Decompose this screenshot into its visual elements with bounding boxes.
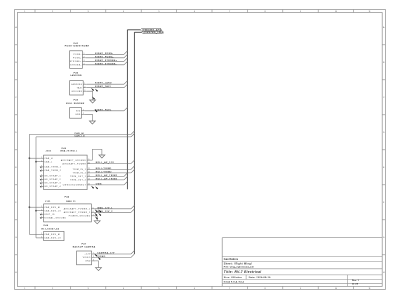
svg-text:7: 7 bbox=[229, 288, 230, 290]
svg-text:7: 7 bbox=[93, 215, 94, 217]
wire CAMERA_12V bbox=[95, 252, 131, 255]
svg-text:3: 3 bbox=[93, 260, 94, 262]
bus entry ROLL_AP_TRIM1 bbox=[124, 173, 127, 176]
GSA pin 11 TRIM_IN_1 bbox=[73, 168, 91, 171]
svg-text:11: 11 bbox=[369, 11, 371, 13]
svg-text:Title: RV-7 Electrical: Title: RV-7 Electrical bbox=[224, 270, 262, 274]
GMU pin 6 AIRCRAFT_POWER_2 bbox=[64, 211, 95, 214]
connector P43 body bbox=[70, 108, 82, 119]
P40 pin 1 LANDING bbox=[71, 83, 87, 86]
svg-text:10: 10 bbox=[335, 288, 337, 290]
svg-text:2: 2 bbox=[41, 237, 42, 239]
svg-text:SIG: SIG bbox=[76, 111, 81, 113]
wire CAN_HI vertical bbox=[28, 134, 30, 234]
svg-text:11: 11 bbox=[369, 288, 371, 290]
wire GSA aircraft ground run bbox=[91, 149, 102, 160]
svg-text:RIGHT_STROBE+: RIGHT_STROBE+ bbox=[95, 60, 118, 62]
ERC marker GMU power1 a bbox=[95, 209, 98, 212]
svg-text:P47: P47 bbox=[82, 244, 87, 246]
svg-text:1: 1 bbox=[24, 11, 25, 13]
GSA pin 14 TRIM_OUT_2 bbox=[70, 179, 90, 182]
svg-text:1: 1 bbox=[93, 253, 94, 255]
bus entry GMU_12V_1 bbox=[131, 205, 134, 208]
ERC marker GMU power1 b bbox=[98, 210, 101, 213]
P40 pin 3 GROUND bbox=[72, 90, 87, 93]
svg-text:CAN_BUS_HI: CAN_BUS_HI bbox=[44, 233, 60, 236]
wire ROLL_AP_TRIM1 bbox=[91, 174, 124, 177]
svg-text:8: 8 bbox=[265, 11, 266, 13]
svg-text:{PWR/WG_FWD}: {PWR/WG_FWD} bbox=[144, 32, 165, 34]
svg-text:P46: P46 bbox=[44, 225, 49, 227]
svg-text:CAN_BUS_HI: CAN_BUS_HI bbox=[44, 206, 60, 209]
svg-text:J111: J111 bbox=[45, 201, 51, 203]
junction CAN_HI GMU bbox=[29, 206, 31, 208]
wire CAN_LO vertical bbox=[35, 137, 37, 238]
bus entry CWS bbox=[124, 182, 127, 185]
svg-text:SIGNAL_GROUND: SIGNAL_GROUND bbox=[44, 216, 66, 219]
wire CWS bbox=[91, 183, 124, 185]
wire RIGHT_STROBE+ bbox=[86, 60, 124, 62]
wire CAN_LO to GMU bbox=[36, 210, 40, 212]
svg-text:14: 14 bbox=[88, 179, 90, 181]
wire RIGHT_TAXI bbox=[87, 85, 124, 88]
svg-text:GMU_12V_1: GMU_12V_1 bbox=[98, 207, 114, 209]
svg-text:CAN_LO: CAN_LO bbox=[75, 135, 86, 138]
svg-text:6: 6 bbox=[93, 211, 94, 213]
svg-text:8: 8 bbox=[41, 185, 42, 187]
junction CAN_LO GMU bbox=[35, 210, 37, 212]
svg-text:3: 3 bbox=[41, 166, 42, 168]
ERC marker at GSA CAN_TERM_1 bbox=[40, 166, 42, 168]
P43 pin 1 SIG bbox=[76, 109, 85, 112]
svg-text:6: 6 bbox=[41, 178, 42, 180]
svg-text:GS_STRAP_1: GS_STRAP_1 bbox=[44, 175, 61, 178]
svg-text:ROLL/TRIM2: ROLL/TRIM2 bbox=[96, 171, 112, 173]
svg-text:2: 2 bbox=[41, 160, 42, 162]
svg-text:TRIM_IN_1: TRIM_IN_1 bbox=[73, 169, 87, 171]
bus entry ROLL_AP_TRIM2 bbox=[124, 177, 127, 180]
svg-text:P44: P44 bbox=[65, 197, 70, 199]
svg-text:GND: GND bbox=[85, 261, 91, 263]
bus PWR/WG_AFT top segment bbox=[127, 29, 140, 31]
bus PWR/WG_FWD vertical bbox=[133, 32, 135, 254]
svg-text:1: 1 bbox=[41, 206, 42, 208]
svg-text:1: 1 bbox=[41, 157, 42, 159]
svg-text:GMU 11: GMU 11 bbox=[66, 201, 76, 203]
GMU pin 5 AIRCRAFT_POWER_1 bbox=[64, 208, 95, 211]
GSA pin 3 CAN_TERM_1 bbox=[40, 166, 61, 169]
svg-text:4: 4 bbox=[41, 169, 42, 171]
svg-text:A: A bbox=[383, 26, 385, 29]
junction CAN_LO GSA bbox=[35, 161, 37, 163]
ground camera bbox=[96, 268, 102, 271]
GSA pin 10 AIRCRAFT_POWER bbox=[63, 162, 91, 165]
svg-text:7: 7 bbox=[229, 11, 230, 13]
GSA pin 2 CAN_L bbox=[40, 160, 53, 163]
bus entry ROLL/TRIM1 bbox=[131, 166, 134, 169]
wire ROLL/TRIM2 bbox=[91, 171, 131, 173]
wire VIDEO bbox=[95, 256, 131, 258]
bus label PWR/WG_AFT bbox=[140, 28, 162, 31]
svg-text:1: 1 bbox=[85, 83, 86, 85]
svg-text:12: 12 bbox=[88, 172, 90, 174]
svg-text:4: 4 bbox=[123, 11, 124, 13]
svg-text:Id: 2/9: Id: 2/9 bbox=[352, 283, 359, 285]
svg-text:GL1-62007-04: GL1-62007-04 bbox=[41, 229, 59, 231]
svg-text:CAN_BUS_LO: CAN_BUS_LO bbox=[44, 209, 61, 212]
P46 pin 1 CAN_BUS_HI bbox=[40, 233, 61, 236]
svg-text:ROLL_AP_TRIM2: ROLL_AP_TRIM2 bbox=[96, 177, 118, 180]
wire CAN_HI to P46 bbox=[29, 233, 40, 235]
svg-text:CAN_TERM_2: CAN_TERM_2 bbox=[44, 169, 61, 172]
wire ROLL/TRIM1 bbox=[91, 168, 131, 170]
svg-text:9: 9 bbox=[89, 159, 90, 161]
svg-text:F: F bbox=[16, 202, 17, 204]
svg-text:2: 2 bbox=[52, 288, 53, 290]
bus entry RIGHT_LAND bbox=[124, 81, 127, 84]
ground P40 bbox=[90, 100, 96, 103]
svg-text:1: 1 bbox=[24, 288, 25, 290]
svg-text:POWER_GROUND: POWER_GROUND bbox=[69, 216, 91, 218]
wire CAN_LO horizontal bbox=[36, 135, 131, 138]
svg-text:RIGHT_STROBE-: RIGHT_STROBE- bbox=[95, 63, 117, 65]
svg-text:4: 4 bbox=[84, 63, 85, 65]
svg-text:5: 5 bbox=[93, 208, 94, 210]
svg-text:CWS: CWS bbox=[96, 183, 102, 185]
GSA pin 8 GS_STRAP_4 bbox=[40, 185, 61, 188]
wire ROLL_AP_TRIM2 bbox=[91, 177, 124, 180]
P41 pin 1 POSN- bbox=[73, 53, 85, 56]
GSA pin 13 TRIM_OUT_1 bbox=[70, 175, 90, 178]
connector P40 body bbox=[70, 81, 84, 95]
svg-text:P43: P43 bbox=[74, 99, 79, 101]
svg-text:STROBE-: STROBE- bbox=[70, 65, 82, 67]
svg-text:CAN_H: CAN_H bbox=[44, 157, 53, 160]
ERC marker GMU ground bbox=[95, 216, 98, 219]
GMU pin 2 CAN_BUS_LO bbox=[40, 209, 61, 212]
wire GMU_12V_1 bbox=[95, 207, 131, 209]
svg-text:GROUND: GROUND bbox=[72, 91, 83, 93]
P41 pin 4 STROBE- bbox=[70, 63, 86, 66]
svg-text:4: 4 bbox=[123, 288, 124, 290]
svg-text:5: 5 bbox=[158, 288, 159, 290]
svg-text:POSN+: POSN+ bbox=[73, 58, 82, 60]
ground P43 bbox=[89, 121, 95, 124]
svg-text:CAMERA_12V: CAMERA_12V bbox=[97, 252, 115, 255]
svg-text:G: G bbox=[383, 237, 385, 239]
ERC marker at GSA GS_STRAP_1 bbox=[40, 175, 42, 177]
svg-text:F: F bbox=[383, 202, 384, 204]
svg-text:2: 2 bbox=[52, 11, 53, 13]
connector P46 body bbox=[44, 231, 64, 240]
svg-text:15: 15 bbox=[88, 184, 90, 186]
svg-text:10: 10 bbox=[88, 162, 90, 164]
svg-text:Ivan Dubrov: Ivan Dubrov bbox=[224, 258, 239, 261]
svg-text:D: D bbox=[383, 132, 385, 134]
svg-text:1: 1 bbox=[84, 53, 85, 55]
bus entry RIGHT_POSN+ bbox=[124, 54, 127, 57]
svg-text:B: B bbox=[383, 62, 384, 64]
GSA pin 12 TRIM_IN_2 bbox=[73, 172, 91, 175]
svg-text:RIGHT_POSN+: RIGHT_POSN+ bbox=[95, 56, 114, 58]
GSA pin 15 CWS/DISCONNECT bbox=[63, 184, 91, 187]
title block outline bbox=[222, 238, 382, 287]
P43 pin 2 GND bbox=[75, 113, 85, 116]
svg-text:13: 13 bbox=[88, 175, 90, 177]
ERC marker at GMU UNIT_ID bbox=[40, 214, 42, 216]
svg-text:RIGHT_FUEL: RIGHT_FUEL bbox=[95, 109, 112, 111]
bus entry RIGHT_FUEL bbox=[124, 107, 127, 110]
ERC marker at GMU SIGNAL_GROUND bbox=[40, 217, 42, 219]
wire camera ground run bbox=[95, 261, 98, 268]
svg-text:CAN_BUS_LO: CAN_BUS_LO bbox=[44, 237, 61, 240]
wire GMU power ground run bbox=[95, 216, 97, 221]
svg-text:7: 7 bbox=[41, 182, 42, 184]
GSA pin 5 GS_STRAP_1 bbox=[40, 175, 61, 178]
svg-text:RIGHT_LAND: RIGHT_LAND bbox=[95, 82, 112, 85]
svg-text:2: 2 bbox=[83, 113, 84, 115]
svg-text:6: 6 bbox=[194, 288, 195, 290]
junction CAN_HI GSA bbox=[29, 157, 31, 159]
camera pin 2 VIDEO bbox=[83, 256, 95, 259]
wire ROLL_AP_12V bbox=[91, 161, 131, 164]
P40 pin 2 TAXI bbox=[77, 86, 87, 89]
GSA pin 6 GS_STRAP_2 bbox=[40, 178, 61, 181]
ERC marker camera 12V bbox=[94, 254, 97, 257]
svg-text:ROLL_AP_TRIM1: ROLL_AP_TRIM1 bbox=[96, 174, 118, 177]
svg-text:AIRCRAFT_GROUND: AIRCRAFT_GROUND bbox=[61, 159, 87, 162]
svg-text:Rev: 1: Rev: 1 bbox=[352, 280, 360, 282]
camera pin 1 +12V bbox=[85, 253, 96, 256]
svg-text:RIGHT_POSN-: RIGHT_POSN- bbox=[95, 53, 113, 55]
svg-text:3: 3 bbox=[41, 213, 42, 215]
svg-text:FUEL SENDER: FUEL SENDER bbox=[66, 103, 85, 105]
svg-text:ROLL_AP_12V: ROLL_AP_12V bbox=[96, 161, 115, 164]
svg-text:Date: 2025-08-15: Date: 2025-08-15 bbox=[249, 276, 271, 279]
svg-text:3: 3 bbox=[88, 288, 89, 290]
ERC marker GMU power2 a bbox=[94, 213, 97, 216]
ERC marker at GSA CAN_TERM_2 bbox=[40, 170, 42, 172]
svg-text:BACKUP CAMERA: BACKUP CAMERA bbox=[73, 246, 96, 249]
svg-text:AIRCRAFT_POWER_1: AIRCRAFT_POWER_1 bbox=[64, 208, 91, 211]
svg-text:ROLL/TRIM1: ROLL/TRIM1 bbox=[96, 168, 112, 170]
svg-text:CAN_TERM_1: CAN_TERM_1 bbox=[44, 166, 61, 169]
wire RIGHT_POSN- bbox=[86, 53, 124, 55]
bus entry RIGHT_STROBE- bbox=[124, 61, 127, 64]
svg-text:+12V: +12V bbox=[85, 254, 92, 256]
svg-text:C: C bbox=[383, 97, 385, 99]
svg-text:GS_STRAP_3: GS_STRAP_3 bbox=[44, 182, 61, 185]
wire CAN_LO to P46 bbox=[36, 237, 40, 239]
svg-text:H: H bbox=[383, 272, 385, 274]
bus entry CAN_HI bbox=[131, 131, 134, 134]
svg-text:STROBE+: STROBE+ bbox=[70, 61, 82, 63]
bus entry CAMERA_12V bbox=[131, 251, 134, 254]
bus entry RIGHT_POSN- bbox=[124, 51, 127, 54]
wire CAN_HI to GSA CAN_H bbox=[29, 157, 40, 159]
ERC marker at GSA GS_STRAP_2 bbox=[40, 179, 42, 181]
svg-text:1: 1 bbox=[83, 109, 84, 111]
wire RIGHT_STROBE- bbox=[86, 63, 124, 65]
ground GSA bbox=[99, 155, 105, 158]
svg-text:4: 4 bbox=[41, 216, 42, 218]
svg-text:File: wing_right.kicad_sch: File: wing_right.kicad_sch bbox=[224, 266, 255, 269]
svg-text:3: 3 bbox=[88, 11, 89, 13]
P41 pin 2 POSN+ bbox=[73, 56, 86, 59]
svg-text:2: 2 bbox=[41, 209, 42, 211]
svg-text:KiCad E.D.A. 9.0.4: KiCad E.D.A. 9.0.4 bbox=[224, 281, 245, 284]
svg-text:UNIT_ID: UNIT_ID bbox=[44, 214, 55, 216]
ERC marker at GSA GS_STRAP_3 bbox=[40, 182, 42, 184]
P46 pin 2 CAN_BUS_LO bbox=[40, 237, 61, 240]
ground GMU bbox=[94, 221, 100, 224]
svg-text:3: 3 bbox=[85, 90, 86, 92]
svg-text:9: 9 bbox=[300, 11, 301, 13]
svg-text:5: 5 bbox=[41, 175, 42, 177]
GSA pin 1 CAN_H bbox=[40, 157, 53, 160]
wire CAN_HI to GMU bbox=[29, 206, 40, 208]
svg-text:VIDEO: VIDEO bbox=[83, 257, 91, 259]
svg-text:RIGHT_TAXI: RIGHT_TAXI bbox=[95, 85, 111, 88]
ERC marker at P40 ground stem bbox=[92, 97, 95, 100]
wire GMU_12V_2 bbox=[95, 211, 131, 213]
svg-text:2: 2 bbox=[84, 56, 85, 58]
ERC marker at CWS label bbox=[95, 186, 98, 189]
svg-text:3: 3 bbox=[84, 60, 85, 62]
wire RIGHT_POSN+ bbox=[86, 56, 124, 58]
svg-text:LANDING: LANDING bbox=[70, 74, 82, 77]
svg-text:CWS/DISCONNECT: CWS/DISCONNECT bbox=[63, 185, 87, 187]
ERC marker at RIGHT_FUEL bbox=[94, 109, 97, 112]
GMU pin 1 CAN_BUS_HI bbox=[40, 206, 61, 209]
wire RIGHT_LAND bbox=[87, 82, 124, 85]
svg-text:CAN_L: CAN_L bbox=[44, 160, 52, 163]
bus entry ROLL/TRIM2 bbox=[131, 170, 134, 173]
title block row dividers bbox=[222, 257, 382, 287]
connector P41 body bbox=[70, 51, 83, 69]
ERC marker at CWS wire bbox=[91, 186, 94, 189]
svg-text:POSN-: POSN- bbox=[73, 54, 81, 56]
svg-text:8: 8 bbox=[265, 288, 266, 290]
magnetometer body bbox=[44, 204, 92, 222]
svg-text:2: 2 bbox=[85, 86, 86, 88]
svg-text:AIRCRAFT_POWER_2: AIRCRAFT_POWER_2 bbox=[64, 211, 91, 214]
ERC marker GMU power2 b bbox=[98, 213, 101, 216]
bus entry RIGHT_STROBE+ bbox=[124, 58, 127, 61]
bus PWR/WG_FWD top segment bbox=[134, 31, 141, 33]
bus entry GMU_12V_2 bbox=[131, 209, 134, 212]
bus entry RIGHT_TAXI bbox=[124, 84, 127, 87]
svg-text:6: 6 bbox=[194, 11, 195, 13]
camera body bbox=[77, 251, 92, 265]
GSA pin 7 GS_STRAP_3 bbox=[40, 182, 61, 185]
svg-text:LANDING: LANDING bbox=[71, 83, 83, 86]
bus entry ROLL_AP_12V bbox=[131, 160, 134, 163]
wire P40 ground run bbox=[87, 91, 93, 100]
svg-text:5: 5 bbox=[158, 11, 159, 13]
wire CAN_HI horizontal bbox=[29, 132, 131, 135]
P41 pin 3 STROBE+ bbox=[70, 60, 86, 63]
svg-text:J201: J201 bbox=[46, 151, 52, 153]
svg-text:GND: GND bbox=[75, 114, 81, 116]
svg-text:Sheet: /Right Wing/: Sheet: /Right Wing/ bbox=[224, 263, 252, 266]
svg-text:1: 1 bbox=[41, 233, 42, 235]
ERC marker at RIGHT_TAXI bbox=[91, 88, 94, 91]
svg-text:11: 11 bbox=[88, 168, 90, 170]
svg-text:GSA 28 ROLL: GSA 28 ROLL bbox=[60, 150, 78, 153]
wire P43 ground run bbox=[85, 114, 92, 121]
GMU pin 3 UNIT_ID bbox=[40, 213, 55, 216]
bus entry VIDEO bbox=[131, 254, 134, 257]
svg-text:CAN_HI: CAN_HI bbox=[75, 132, 85, 135]
GSA pin 9 AIRCRAFT_GROUND bbox=[61, 159, 91, 162]
svg-text:TRIM_IN_2: TRIM_IN_2 bbox=[73, 173, 87, 175]
GMU pin 7 POWER_GROUND bbox=[69, 215, 95, 218]
GMU pin 4 SIGNAL_GROUND bbox=[40, 216, 67, 219]
camera pin 3 GND bbox=[85, 260, 95, 263]
svg-text:TAXI: TAXI bbox=[77, 86, 83, 89]
svg-text:E: E bbox=[383, 167, 384, 169]
bus label PWR/WG_FWD bbox=[142, 31, 165, 34]
svg-text:B: B bbox=[15, 62, 16, 64]
svg-text:2: 2 bbox=[93, 256, 94, 258]
svg-text:9: 9 bbox=[300, 288, 301, 290]
svg-text:TRIM_OUT_1: TRIM_OUT_1 bbox=[70, 176, 86, 178]
svg-text:GS_STRAP_2: GS_STRAP_2 bbox=[44, 178, 61, 181]
svg-text:Size: USLetter: Size: USLetter bbox=[224, 276, 242, 279]
svg-text:POSITION/STROBE: POSITION/STROBE bbox=[65, 45, 90, 47]
svg-text:TRIM_OUT_2: TRIM_OUT_2 bbox=[70, 180, 86, 182]
wire CAN_LO to GSA CAN_L bbox=[36, 161, 40, 163]
wire RIGHT_FUEL bbox=[85, 109, 124, 111]
GSA pin 4 CAN_TERM_2 bbox=[40, 169, 61, 172]
ERC marker at GSA GS_STRAP_4 bbox=[40, 186, 42, 188]
bus PWR/WG_AFT vertical bbox=[126, 30, 128, 189]
bus entry CAN_LO bbox=[131, 134, 134, 137]
svg-text:10: 10 bbox=[335, 11, 337, 13]
svg-text:AIRCRAFT_POWER: AIRCRAFT_POWER bbox=[63, 162, 87, 165]
servo P45 body bbox=[44, 155, 88, 190]
ERC marker at P40 ground wire bbox=[95, 89, 98, 92]
svg-text:E: E bbox=[15, 167, 16, 169]
svg-text:GS_STRAP_4: GS_STRAP_4 bbox=[44, 185, 61, 188]
ERC marker camera video bbox=[98, 257, 101, 260]
